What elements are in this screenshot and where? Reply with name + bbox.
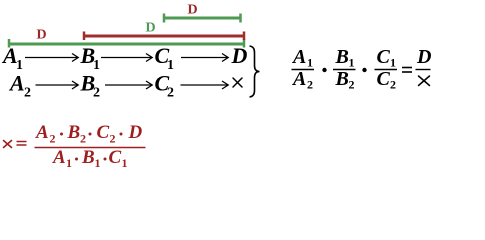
row1 arrow B1-C1: [101, 54, 152, 62]
svg-text:1: 1: [349, 56, 355, 70]
svg-text:2: 2: [349, 78, 355, 92]
svg-text:C: C: [377, 46, 391, 68]
svg-text:B: B: [67, 122, 81, 143]
row2 arrow B2-C2: [105, 81, 152, 89]
svg-text:1: 1: [122, 156, 128, 170]
svg-text:C: C: [97, 122, 110, 143]
row1 arrow A1-B1: [25, 54, 78, 62]
svg-text:D: D: [188, 3, 198, 18]
eq1 dot 2: [362, 68, 366, 72]
svg-text:2: 2: [50, 132, 56, 146]
svg-text:A: A: [291, 46, 306, 68]
svg-text:1: 1: [95, 156, 101, 170]
svg-text:2: 2: [167, 86, 174, 101]
svg-text:A: A: [8, 71, 25, 96]
bracket line D middle (red): [83, 32, 245, 41]
svg-text:1: 1: [390, 56, 396, 70]
eq1 fraction A1/A2: [291, 46, 314, 92]
eq1 dot 1: [322, 68, 326, 72]
eq1 fraction B1/B2: [333, 46, 356, 92]
svg-text:2: 2: [110, 132, 116, 146]
svg-text:B: B: [335, 46, 349, 68]
eq2 denominator A1.B1.C1: [52, 147, 128, 170]
eq1 equals sign: [402, 68, 412, 73]
eq2 equals sign: [17, 142, 27, 146]
eq2 numerator A2.B2.C2.D: [35, 122, 143, 146]
svg-text:D: D: [37, 28, 47, 43]
eq1 fraction D/x: [416, 46, 432, 86]
svg-text:B: B: [335, 68, 349, 90]
row2 arrow A2-B2: [36, 81, 79, 89]
row2 term x (unknown): [233, 78, 242, 87]
svg-text:B: B: [81, 147, 95, 168]
svg-text:A: A: [52, 147, 66, 168]
svg-text:A: A: [291, 68, 306, 90]
svg-text:C: C: [109, 147, 122, 168]
svg-text:2: 2: [80, 132, 86, 146]
svg-text:1: 1: [307, 56, 313, 70]
svg-text:2: 2: [390, 78, 396, 92]
eq2 fraction bar: [35, 147, 146, 149]
svg-text:2: 2: [93, 86, 100, 101]
svg-text:D: D: [146, 21, 156, 36]
eq2 x (unknown, red): [4, 141, 12, 148]
curly brace: [250, 46, 260, 97]
svg-text:C: C: [377, 68, 391, 90]
svg-text:A: A: [35, 122, 49, 143]
eq1 fraction C1/C2: [375, 46, 398, 92]
svg-text:D: D: [416, 46, 431, 68]
svg-text:1: 1: [66, 156, 72, 170]
svg-text:2: 2: [24, 86, 31, 101]
bracket line D whole (bottom green): [8, 39, 245, 48]
svg-text:D: D: [128, 122, 143, 143]
svg-text:D: D: [231, 43, 248, 68]
row1 arrow C1-D: [181, 54, 228, 62]
svg-text:2: 2: [307, 78, 313, 92]
row2 arrow C2-x: [181, 81, 229, 89]
bracket line D top (green): [163, 14, 242, 23]
